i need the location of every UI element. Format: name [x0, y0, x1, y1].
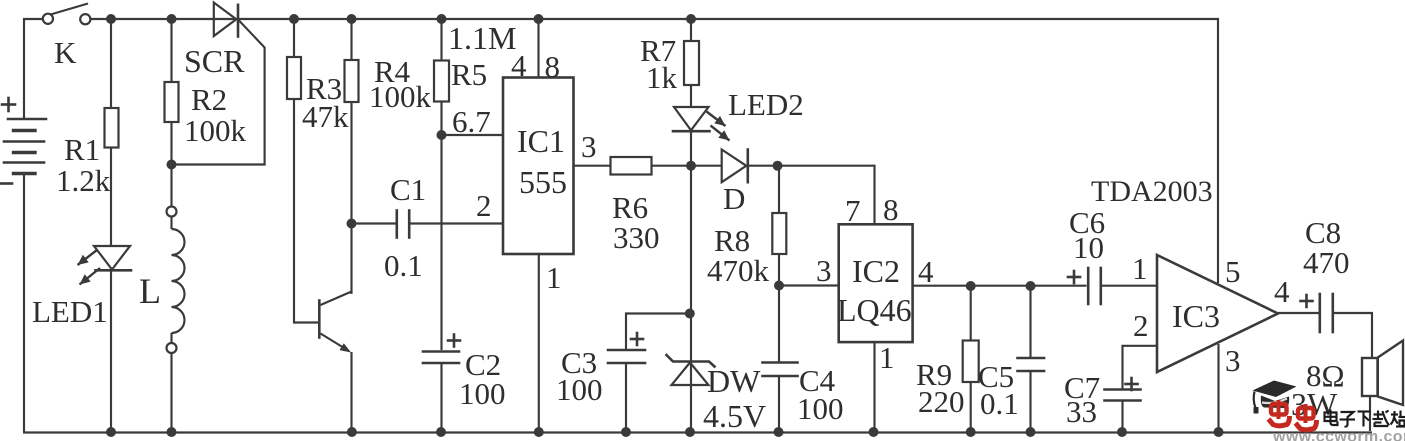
- svg-text:C1: C1: [390, 172, 426, 207]
- svg-text:TDA2003: TDA2003: [1091, 175, 1213, 208]
- svg-text:R1: R1: [64, 132, 100, 167]
- svg-text:5: 5: [1225, 254, 1241, 289]
- svg-text:33: 33: [1066, 394, 1097, 429]
- svg-text:555: 555: [519, 164, 567, 200]
- svg-text:K: K: [54, 35, 77, 70]
- svg-text:D: D: [723, 181, 745, 216]
- svg-text:0.1: 0.1: [384, 248, 423, 283]
- svg-text:470k: 470k: [707, 253, 770, 288]
- svg-text:1k: 1k: [646, 60, 678, 95]
- svg-text:LED1: LED1: [32, 294, 108, 329]
- svg-text:7: 7: [845, 193, 861, 228]
- svg-text:R5: R5: [451, 57, 487, 92]
- svg-text:2: 2: [1133, 308, 1149, 343]
- svg-text:47k: 47k: [302, 99, 349, 134]
- svg-text:3: 3: [581, 129, 597, 164]
- svg-text:100: 100: [797, 391, 844, 426]
- svg-text:4.5V: 4.5V: [703, 398, 766, 434]
- svg-text:100k: 100k: [369, 79, 432, 114]
- svg-text:6.7: 6.7: [452, 104, 491, 139]
- svg-text:3: 3: [1225, 343, 1241, 378]
- svg-text:DW: DW: [707, 363, 761, 399]
- svg-text:10: 10: [1073, 230, 1104, 265]
- svg-text:1.1M: 1.1M: [448, 20, 516, 56]
- svg-text:2: 2: [476, 188, 492, 223]
- svg-text:100k: 100k: [184, 113, 247, 148]
- svg-text:www.ccworm.com: www.ccworm.com: [1272, 429, 1405, 441]
- svg-text:470: 470: [1303, 245, 1350, 280]
- svg-text:1: 1: [879, 340, 895, 375]
- svg-text:1: 1: [546, 260, 562, 295]
- svg-text:4: 4: [1274, 274, 1290, 309]
- svg-text:330: 330: [613, 220, 660, 255]
- svg-text:0.1: 0.1: [980, 386, 1019, 421]
- svg-text:LED2: LED2: [728, 87, 804, 122]
- svg-text:1: 1: [1132, 251, 1148, 286]
- svg-text:R2: R2: [191, 82, 227, 117]
- svg-text:100: 100: [556, 372, 603, 407]
- svg-text:8: 8: [545, 49, 561, 84]
- svg-text:8: 8: [883, 192, 899, 227]
- svg-text:IC1: IC1: [517, 123, 565, 159]
- svg-text:LQ46: LQ46: [837, 292, 912, 328]
- svg-text:100: 100: [459, 376, 506, 411]
- svg-text:IC3: IC3: [1172, 298, 1220, 334]
- svg-text:220: 220: [918, 384, 965, 419]
- svg-text:1.2k: 1.2k: [56, 163, 111, 198]
- svg-text:4: 4: [511, 48, 527, 83]
- svg-text:SCR: SCR: [184, 43, 245, 79]
- svg-text:L: L: [139, 271, 161, 311]
- svg-text:IC2: IC2: [852, 253, 900, 289]
- svg-text:4: 4: [918, 254, 934, 289]
- svg-text:3: 3: [816, 253, 832, 288]
